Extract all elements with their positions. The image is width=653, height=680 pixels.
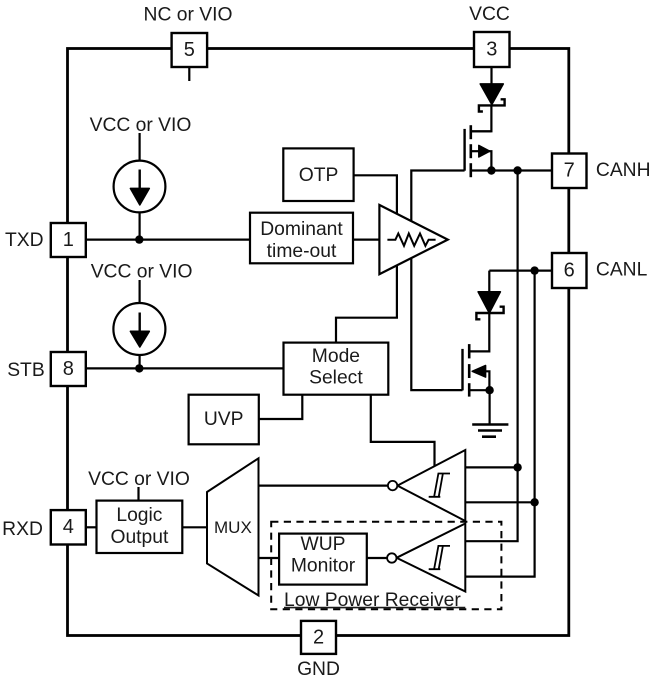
wire: gate rail Q1 to Q2 — [411, 171, 464, 391]
wire: VCC or VIO to current source I2 — [139, 280, 141, 304]
svg-text:Select: Select — [309, 368, 363, 389]
block OTP — [283, 148, 353, 201]
wire: VCC or VIO stub to Logic Output — [137, 487, 139, 501]
wire: CANH net from Q1 source to pin 7 — [471, 169, 552, 171]
wire: current source I2 to STB rail — [139, 355, 141, 369]
receiver U2 with schmitt trigger — [388, 450, 465, 521]
receiver U3 with schmitt trigger — [387, 524, 465, 592]
junction dot: CANH tap at receiver U2 output — [513, 463, 521, 471]
wire: MUX to WUP Monitor — [259, 557, 280, 559]
svg-text:time-out: time-out — [267, 241, 337, 262]
svg-text:VCC or VIO: VCC or VIO — [90, 115, 192, 136]
svg-text:RXD: RXD — [2, 519, 43, 540]
IC boundary — [68, 49, 569, 636]
svg-text:UVP: UVP — [204, 409, 244, 430]
svg-text:Dominant: Dominant — [260, 219, 343, 240]
junction dot: CANH tap — [513, 166, 521, 174]
wire: current source I1 to TXD rail — [139, 212, 141, 240]
transistor Q1 high-side MOSFET — [465, 125, 492, 177]
zener diode D1 — [479, 84, 505, 112]
pin 4 box — [51, 510, 86, 544]
block WUP Monitor — [279, 534, 367, 585]
svg-text:8: 8 — [63, 358, 74, 380]
svg-text:1: 1 — [63, 229, 74, 251]
current source I2 — [113, 303, 165, 355]
wire: CANL corner down to Zener D2 — [488, 271, 490, 293]
transistor Q2 low-side MOSFET — [463, 344, 486, 397]
block UVP — [189, 395, 259, 445]
svg-text:STB: STB — [7, 360, 45, 381]
wire: Q2 source to ground — [489, 390, 491, 424]
svg-text:TXD: TXD — [5, 230, 44, 251]
wire: STB rail from pin 8 to Mode Select — [86, 367, 284, 369]
svg-text:MUX: MUX — [214, 518, 252, 537]
junction dot: CANL tap at receiver U2 output — [530, 498, 538, 506]
svg-text:GND: GND — [297, 659, 340, 680]
wire: VCC or VIO to current source I1 — [139, 133, 141, 161]
svg-text:CANH: CANH — [596, 160, 651, 181]
svg-text:7: 7 — [564, 160, 575, 182]
svg-text:VCC or VIO: VCC or VIO — [88, 469, 190, 490]
svg-text:2: 2 — [313, 626, 324, 648]
wire: Q2 body to source junction — [485, 371, 489, 390]
svg-text:OTP: OTP — [299, 165, 339, 186]
pin 3 box — [474, 32, 510, 67]
wire: OTP to Mode Select — [336, 175, 397, 342]
svg-text:Output: Output — [110, 527, 169, 548]
wire: receiver U2 upper output to CANH tap — [465, 466, 517, 468]
svg-text:Mode: Mode — [312, 346, 360, 367]
block Dominant time-out — [250, 213, 353, 264]
svg-text:5: 5 — [184, 39, 195, 61]
svg-text:VCC: VCC — [469, 4, 510, 25]
wire: Logic Output to MUX — [182, 526, 206, 528]
wire: NC stub below pin 5 — [188, 67, 190, 81]
svg-text:3: 3 — [486, 38, 497, 60]
zener diode D2 — [476, 292, 503, 320]
wire: Zener D1 to Q1 drain — [471, 105, 492, 131]
wire: Dominant time-out to driver U1 — [353, 239, 380, 241]
wire: CANL tap down to receiver U3 lower input — [465, 271, 534, 577]
current source I1 — [114, 161, 166, 213]
wire: Zener D2 to Q2 drain — [469, 313, 489, 351]
pin 2 box — [301, 621, 336, 654]
svg-text:Logic: Logic — [116, 505, 162, 526]
block Mode Select — [284, 343, 389, 395]
wire: CANL net from D2 to pin 6 — [489, 270, 552, 272]
dashed box Low Power Receiver — [271, 522, 501, 611]
svg-text:NC or VIO: NC or VIO — [144, 5, 233, 26]
svg-text:CANL: CANL — [596, 259, 648, 280]
wire: Mode Select to receiver U2 enable — [371, 395, 435, 467]
pin 8 box — [51, 352, 86, 386]
svg-text:VCC or VIO: VCC or VIO — [91, 262, 193, 283]
svg-text:6: 6 — [564, 259, 575, 281]
junction dot: TXD rail — [135, 235, 143, 243]
wire: pin 3 to Zener D1 — [490, 67, 492, 85]
pin 5 box — [172, 33, 208, 67]
junction dot: Q1 source CANH — [487, 166, 495, 174]
ground — [472, 425, 508, 437]
wire: receiver U2 lower output to CANL tap — [465, 501, 534, 503]
svg-text:WUP: WUP — [301, 534, 346, 555]
wire: MUX to receiver U2 input — [259, 485, 389, 487]
wire: Q2 source stub — [469, 389, 489, 391]
wire: WUP Monitor to receiver U3 input — [367, 557, 387, 559]
wire: CANH tap down to receiver outputs — [465, 171, 517, 542]
pin 7 box — [552, 154, 587, 189]
pin 1 box — [51, 223, 86, 257]
wire: Q1 body to source junction — [489, 151, 492, 170]
junction dot: STB rail — [135, 364, 143, 372]
svg-text:4: 4 — [63, 516, 74, 538]
junction dot: CANL tap — [530, 266, 538, 274]
wire: UVP to Mode Select — [259, 395, 303, 419]
pin 6 box — [552, 253, 587, 288]
block Logic Output — [97, 501, 183, 553]
wire: TXD rail from pin 1 to Dominant time-out — [86, 239, 250, 241]
wire: pin 4 to Logic Output — [86, 526, 97, 528]
junction dot: Q2 source — [485, 386, 493, 394]
driver U1 with slew resistor — [379, 205, 447, 274]
MUX — [207, 458, 259, 595]
svg-text:Monitor: Monitor — [291, 556, 356, 577]
